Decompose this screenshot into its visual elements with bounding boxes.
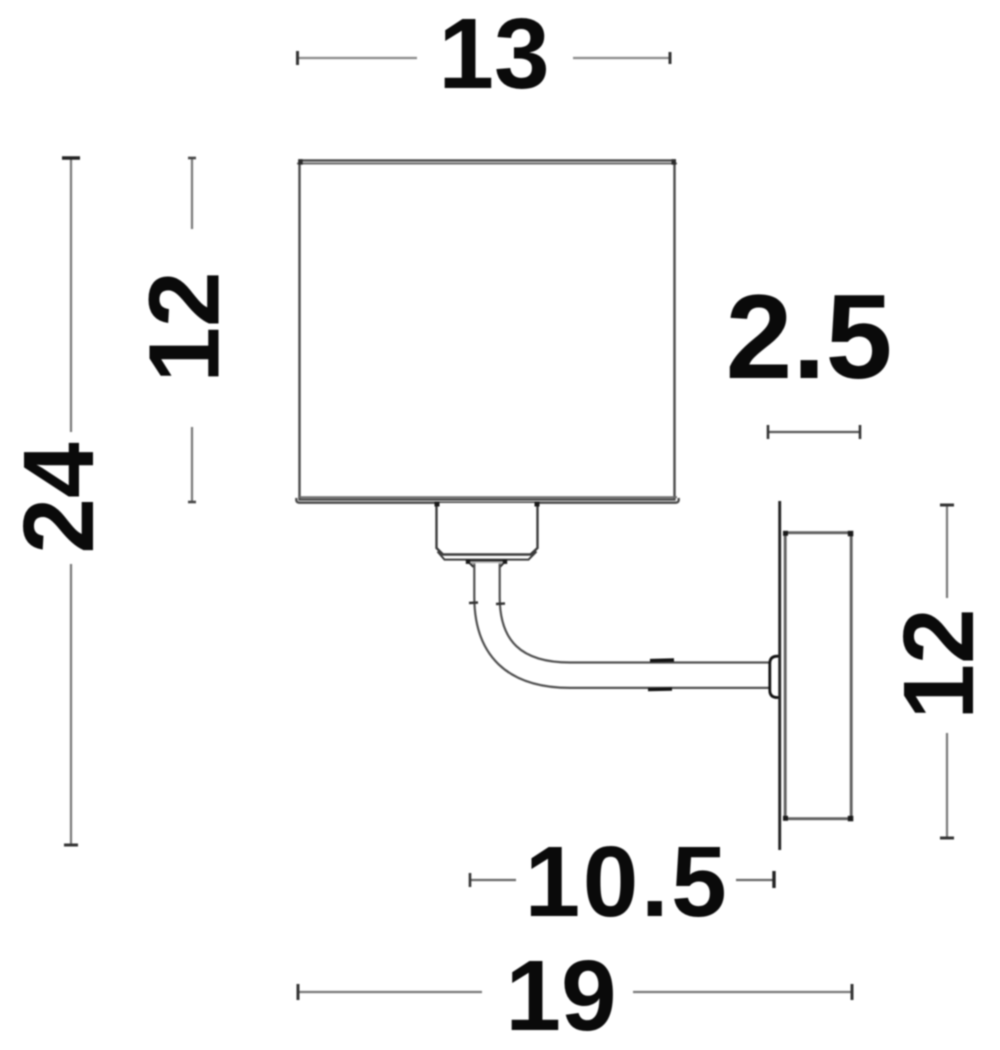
arm seam marks	[469, 603, 674, 690]
lamp shade	[297, 159, 677, 499]
dimension 12 (shade height, left)	[129, 158, 241, 502]
arm wall cap	[770, 656, 781, 697]
curved arm (stem, elbow, horizontal tube)	[487, 563, 771, 675]
dimension 2.5 (bracket depth, right)	[726, 270, 893, 439]
svg-text:24: 24	[3, 442, 115, 554]
socket cup	[435, 502, 540, 560]
dimension 12 (wall plate height, right)	[883, 505, 995, 838]
svg-text:19: 19	[505, 940, 616, 1050]
svg-text:10.5: 10.5	[525, 826, 730, 938]
dimension 19 (total projection, bottom)	[298, 940, 852, 1050]
svg-text:2.5: 2.5	[726, 270, 893, 404]
dimension 13 (shade width, top)	[298, 0, 671, 110]
svg-text:12: 12	[129, 271, 241, 382]
dimension 24 (total height, far left)	[3, 158, 115, 845]
svg-text:12: 12	[883, 608, 995, 719]
dimension 10.5 (arm projection)	[470, 826, 774, 938]
svg-text:13: 13	[438, 0, 549, 110]
wall plate	[783, 531, 853, 822]
shade bottom rim	[296, 497, 678, 503]
lamp holder ferrule	[466, 560, 507, 567]
wall mount back line	[778, 501, 781, 850]
